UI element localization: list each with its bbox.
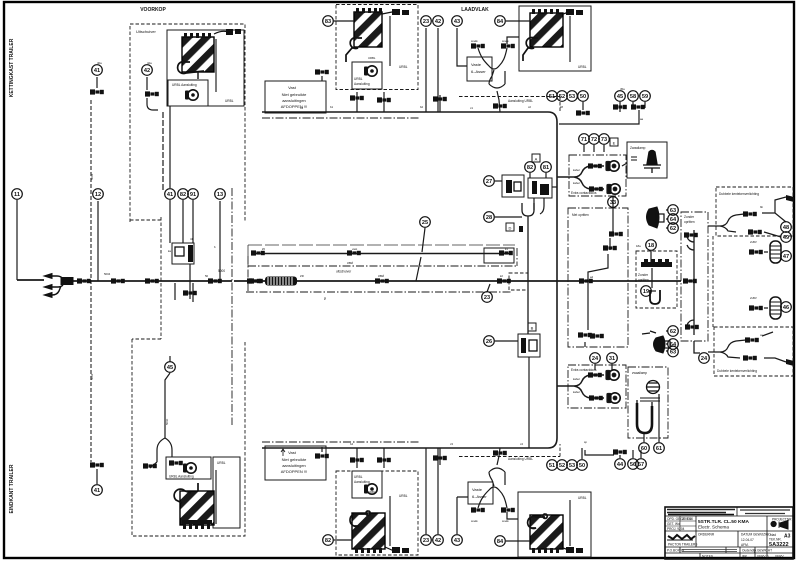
svg-text:URBL: URBL bbox=[354, 475, 363, 479]
svg-text:k8: k8 bbox=[560, 105, 563, 109]
svg-text:PACTON TRAILERS: PACTON TRAILERS bbox=[668, 543, 697, 547]
dash-dot above bottom trunk bbox=[262, 441, 420, 443]
svg-text:snelk.: snelk. bbox=[471, 519, 479, 523]
letter box A bbox=[532, 154, 540, 162]
solid box B-26 bbox=[518, 334, 540, 357]
main bus left segment bbox=[17, 280, 265, 281]
node 59 bbox=[640, 91, 651, 102]
circle 25 leader bbox=[416, 228, 425, 281]
node 43 bbox=[452, 535, 463, 546]
node 26 bbox=[484, 336, 495, 347]
bottom circles 23-42 risers bbox=[426, 448, 438, 534]
svg-text:c1: c1 bbox=[470, 106, 473, 110]
node 48 bbox=[781, 222, 792, 233]
node 44 bbox=[615, 459, 626, 470]
circle 18 stub bbox=[650, 251, 652, 262]
svg-text:URBL Aansluiting: URBL Aansluiting bbox=[169, 475, 194, 479]
svg-text:Vast: Vast bbox=[288, 85, 297, 90]
svg-text:Extra contactdoos: Extra contactdoos bbox=[571, 368, 597, 372]
svg-text:GEWICHT: GEWICHT bbox=[757, 549, 772, 553]
svg-text:Niet gebruikte: Niet gebruikte bbox=[282, 92, 307, 97]
svg-text:45a: 45a bbox=[620, 87, 625, 91]
hatched board H2 top-middle bbox=[346, 8, 409, 66]
solid box Vast niet gebruikte bottom bbox=[265, 446, 326, 480]
svg-text:5A3222: 5A3222 bbox=[769, 542, 789, 548]
svg-text:53: 53 bbox=[569, 463, 575, 469]
dashed box upper rail right end bbox=[509, 273, 528, 290]
node 52 bbox=[557, 460, 568, 471]
connector blobs on buses and wires bbox=[77, 43, 763, 512]
vaste 6-asser bottom harness bbox=[478, 448, 518, 519]
svg-text:61: 61 bbox=[656, 446, 662, 452]
svg-text:41: 41 bbox=[94, 68, 100, 74]
svg-text:52: 52 bbox=[559, 463, 565, 469]
node 41 bbox=[165, 189, 176, 200]
svg-text:18a: 18a bbox=[636, 244, 641, 248]
svg-text:vast: vast bbox=[352, 247, 357, 251]
svg-text:46: 46 bbox=[783, 305, 789, 311]
svg-text:Aansluiting URBL: Aansluiting URBL bbox=[508, 99, 533, 103]
svg-text:AFDOPPEN !!!: AFDOPPEN !!! bbox=[281, 469, 307, 474]
svg-text:45: 45 bbox=[617, 94, 623, 100]
bottom-left Y fork bbox=[157, 438, 172, 462]
svg-text:50: 50 bbox=[323, 296, 327, 300]
node 64 bbox=[668, 339, 679, 350]
node 82 bbox=[178, 189, 189, 200]
svg-text:KETTINGKAST TRAILER: KETTINGKAST TRAILER bbox=[9, 38, 15, 97]
node 18 bbox=[646, 240, 657, 251]
bottom-left circle-45 run bbox=[165, 356, 170, 438]
svg-text:Zonder: Zonder bbox=[638, 273, 649, 277]
node 73 bbox=[599, 134, 610, 145]
top circles 23-42 drops bbox=[426, 28, 438, 112]
node 61 bbox=[654, 443, 665, 454]
svg-text:23: 23 bbox=[423, 538, 429, 544]
svg-text:28: 28 bbox=[486, 215, 492, 221]
mini socket components inside boxes bbox=[175, 180, 549, 353]
solid box mini socket 81-82 bbox=[528, 178, 552, 198]
svg-text:6–Asser: 6–Asser bbox=[472, 494, 487, 499]
node 43 bbox=[452, 16, 463, 27]
svg-text:WK.: WK. bbox=[742, 555, 748, 559]
svg-text:LAADVLAK: LAADVLAK bbox=[461, 7, 489, 13]
svg-text:A: A bbox=[535, 157, 538, 162]
node 84 bbox=[495, 16, 506, 27]
bottom-left left prong connector lead bbox=[150, 462, 157, 468]
svg-text:Zwaailamp: Zwaailamp bbox=[630, 146, 646, 150]
node 52 bbox=[557, 91, 568, 102]
node 91 bbox=[188, 189, 199, 200]
bottom-right trunk connector diagonal bbox=[585, 450, 641, 458]
svg-text:AFM.: AFM. bbox=[741, 543, 749, 547]
dash-dot below top trunk bbox=[262, 117, 420, 119]
TM riser wires bottom bbox=[357, 448, 440, 468]
svg-text:42: 42 bbox=[435, 538, 441, 544]
svg-text:blad: blad bbox=[770, 533, 776, 537]
svg-text:b4: b4 bbox=[350, 442, 354, 446]
node 50 bbox=[577, 460, 588, 471]
node 63 bbox=[668, 205, 679, 216]
svg-text:b1: b1 bbox=[330, 105, 334, 109]
dashed box top-middle bbox=[336, 5, 418, 90]
svg-text:c4: c4 bbox=[520, 442, 523, 446]
busbar zonder opritten small bbox=[641, 259, 672, 267]
svg-text:Uitschuiver: Uitschuiver bbox=[136, 29, 156, 34]
zwaailamp top lead bbox=[622, 163, 627, 166]
svg-text:kabel: kabel bbox=[573, 390, 580, 394]
ribbed marker lamp bottom-right bbox=[770, 297, 781, 319]
vaste 6-asser top harness bbox=[478, 37, 519, 112]
node 64 bbox=[668, 214, 679, 225]
node 84 bbox=[495, 536, 506, 547]
node 41 bbox=[92, 65, 103, 76]
hub bottom branch fork bbox=[557, 375, 604, 398]
extra contactdoos sockets top bbox=[606, 161, 620, 194]
TM drop wires to trunk bbox=[357, 92, 440, 112]
top circle 83 lead bbox=[334, 20, 354, 22]
comp by circles 63-64-62 bottom bbox=[642, 331, 670, 353]
svg-text:ORDERNR: ORDERNR bbox=[698, 533, 715, 537]
svg-text:aansluitingen: aansluitingen bbox=[282, 463, 306, 468]
node 51 bbox=[547, 91, 558, 102]
solid box bottom-mid-right URBL bbox=[518, 492, 591, 557]
solid box URBL aansluiting top-left bbox=[168, 80, 208, 106]
dashed box Zonder opritten small bbox=[636, 251, 677, 308]
dashed box Dubbele kentekenverlichting top-right bbox=[716, 187, 793, 236]
svg-text:b2: b2 bbox=[420, 105, 424, 109]
svg-text:47: 47 bbox=[783, 254, 789, 260]
right corner verticals bbox=[516, 248, 518, 266]
svg-text:aansluitingen: aansluitingen bbox=[282, 98, 306, 103]
svg-text:Aansluiting: Aansluiting bbox=[354, 480, 370, 484]
node 63 bbox=[668, 346, 679, 357]
lamp and U-tube zwaailamp bottom bbox=[637, 381, 660, 434]
svg-text:23: 23 bbox=[484, 295, 490, 301]
svg-text:42: 42 bbox=[435, 19, 441, 25]
top circle 43 drop bbox=[457, 28, 467, 66]
marker lamp top lead bbox=[764, 252, 782, 256]
met opritten harness bbox=[585, 208, 613, 347]
svg-text:vast: vast bbox=[378, 274, 384, 278]
svg-text:c2: c2 bbox=[528, 105, 531, 109]
svg-text:43: 43 bbox=[454, 538, 460, 544]
dashed box Dubbele kentekenverlichting bottom-right bbox=[714, 327, 793, 376]
solid box URBL aansluiting top-middle bbox=[352, 62, 382, 89]
svg-text:Extra contactdoos: Extra contactdoos bbox=[571, 191, 597, 195]
svg-text:42a: 42a bbox=[147, 61, 152, 65]
svg-text:PROJECTNR: PROJECTNR bbox=[772, 518, 792, 522]
circle-42 top stub bbox=[147, 77, 158, 110]
svg-text:31: 31 bbox=[609, 356, 615, 362]
svg-text:64: 64 bbox=[670, 217, 677, 223]
vertical trunk wire bbox=[556, 122, 558, 438]
svg-text:sp: sp bbox=[584, 440, 587, 444]
solid box URBL aansluiting bottom-middle bbox=[352, 471, 382, 498]
svg-text:83: 83 bbox=[325, 19, 331, 25]
hub right branch with fork bbox=[557, 166, 604, 189]
svg-text:AFDOPPEN !!!: AFDOPPEN !!! bbox=[281, 104, 307, 109]
svg-text:41: 41 bbox=[167, 192, 173, 198]
solid box top-left cluster bbox=[167, 30, 244, 106]
svg-text:84: 84 bbox=[497, 19, 504, 25]
circle-41 mid link bbox=[169, 106, 171, 243]
svg-text:23: 23 bbox=[423, 19, 429, 25]
svg-text:P.O.BOX 99: P.O.BOX 99 bbox=[667, 549, 684, 553]
svg-text:uitschuiver: uitschuiver bbox=[336, 270, 352, 274]
svg-text:41: 41 bbox=[190, 237, 194, 241]
circles 63-64-62 comp top bbox=[666, 210, 668, 228]
node 49 bbox=[781, 232, 792, 243]
circles 58-59 merge wire bbox=[559, 102, 645, 124]
dubbele top fork bbox=[708, 213, 786, 237]
circle 19 lead bbox=[651, 290, 656, 292]
svg-text:62: 62 bbox=[670, 226, 676, 232]
svg-text:82: 82 bbox=[180, 192, 186, 198]
dashed line aansluiting URBL bottom bbox=[459, 444, 560, 457]
svg-text:A3: A3 bbox=[784, 534, 791, 540]
node 41 bbox=[92, 485, 103, 496]
dashed line aansluiting URBL top bbox=[459, 97, 560, 113]
node 45 bbox=[615, 91, 626, 102]
solid box Vast niet gebruikte top bbox=[265, 81, 326, 113]
svg-text:DATUM GEWIJZIGD: DATUM GEWIJZIGD bbox=[741, 533, 771, 537]
dash-dot box Extra contactdoos bbox=[569, 155, 626, 196]
letter box E bbox=[610, 138, 618, 146]
horizontal slide boundary upper bbox=[248, 256, 517, 292]
node 56 bbox=[628, 459, 639, 470]
svg-text:URBL: URBL bbox=[578, 65, 587, 69]
node 83 bbox=[323, 16, 334, 27]
dash-dot box Extra contactdoos bottom bbox=[568, 365, 626, 408]
node 19 bbox=[641, 286, 652, 297]
svg-text:E: E bbox=[613, 141, 616, 146]
svg-text:URBL: URBL bbox=[217, 461, 226, 465]
node 46 bbox=[781, 302, 792, 313]
extra contactdoos sockets bottom bbox=[606, 370, 620, 403]
hatched board H4 bottom-left bbox=[174, 470, 216, 529]
svg-text:B: B bbox=[531, 326, 534, 331]
node 42 bbox=[433, 16, 444, 27]
circle-12 drop bbox=[97, 201, 99, 281]
node 33 bbox=[608, 197, 619, 208]
circles 71-73 stubs bbox=[584, 145, 604, 152]
svg-text:71: 71 bbox=[581, 137, 587, 143]
circle-91 drop bbox=[192, 200, 194, 243]
upper rail bbox=[252, 253, 512, 255]
svg-text:VERV.: VERV. bbox=[775, 555, 784, 559]
svg-text:URBL: URBL bbox=[354, 77, 363, 81]
svg-text:12: 12 bbox=[95, 192, 101, 198]
top circle 84 lead bbox=[506, 20, 530, 22]
svg-text:58: 58 bbox=[630, 94, 636, 100]
dash-dot slide boundary lines bbox=[232, 118, 708, 442]
svg-text:52: 52 bbox=[559, 94, 565, 100]
socket in URBL aansluiting top-left bbox=[185, 90, 198, 100]
circle-41 top stub bbox=[96, 77, 98, 88]
comp by circles 63-64-62 top bbox=[647, 207, 665, 228]
vertical slide boundary left bbox=[231, 188, 233, 425]
svg-text:53: 53 bbox=[569, 94, 575, 100]
node 25 bbox=[420, 217, 431, 228]
svg-text:40a: 40a bbox=[97, 61, 102, 65]
letter box B bbox=[528, 323, 536, 331]
svg-text:NOTES: NOTES bbox=[702, 555, 713, 559]
dashed boundary jog left side bbox=[130, 217, 161, 339]
node 57 bbox=[636, 459, 647, 470]
U-lamp zonder opritten small bbox=[650, 290, 660, 304]
hatched board H1 top-left bbox=[178, 29, 241, 92]
circles 24-31 stubs bbox=[595, 364, 612, 370]
node 23 bbox=[482, 292, 493, 303]
svg-text:82: 82 bbox=[527, 165, 533, 171]
svg-text:Oudendijk: Oudendijk bbox=[742, 549, 757, 553]
socket in URBL aansluiting bottom-left bbox=[183, 463, 196, 473]
svg-text:63: 63 bbox=[670, 350, 676, 356]
node 50 bbox=[578, 91, 589, 102]
beacon zwaailamp top bbox=[631, 151, 661, 174]
svg-text:GET. Wd: GET. Wd bbox=[667, 522, 680, 526]
node 23 bbox=[421, 535, 432, 546]
svg-text:VOORKOP: VOORKOP bbox=[140, 7, 166, 13]
svg-text:zwaailamp: zwaailamp bbox=[632, 371, 647, 375]
solid box small connector left-mid bbox=[172, 243, 194, 264]
svg-text:URBL Aansluiting: URBL Aansluiting bbox=[172, 83, 197, 87]
circle 50 bottom stub bbox=[581, 448, 583, 459]
svg-text:URBL: URBL bbox=[368, 56, 376, 60]
dash-dot box zwaailamp bottom bbox=[628, 367, 668, 438]
svg-text:24: 24 bbox=[592, 356, 599, 362]
svg-text:URBL: URBL bbox=[399, 494, 408, 498]
node 53 bbox=[567, 460, 578, 471]
svg-text:Vaste: Vaste bbox=[471, 62, 482, 67]
left arrow feeder cluster bbox=[44, 274, 73, 298]
node 31 bbox=[607, 353, 618, 364]
svg-text:24: 24 bbox=[701, 356, 708, 362]
svg-text:42: 42 bbox=[144, 68, 150, 74]
node 28 bbox=[484, 212, 495, 223]
svg-text:50: 50 bbox=[580, 94, 586, 100]
circle 24 right stub bbox=[703, 352, 705, 364]
bus into tall box fork bbox=[688, 280, 694, 282]
solid box Vaste 6-Asser bottom bbox=[468, 482, 493, 504]
dashed box bottom-middle bbox=[336, 471, 418, 555]
node 13 bbox=[215, 189, 226, 200]
svg-text:Dubbele kentekenverlichting: Dubbele kentekenverlichting bbox=[719, 192, 759, 196]
svg-text:5004: 5004 bbox=[104, 272, 111, 276]
U-fork vertical bbox=[522, 203, 534, 334]
bottom-left circle-41 stub bbox=[96, 469, 98, 484]
svg-text:57: 57 bbox=[638, 462, 644, 468]
hatched board H3 top-right bbox=[523, 9, 583, 62]
svg-text:ZR: ZR bbox=[300, 274, 304, 278]
node 58 bbox=[628, 91, 639, 102]
circle 28 lead to U-fork line bbox=[495, 216, 522, 218]
node 42 bbox=[142, 65, 153, 76]
left circle-11 drop bbox=[16, 200, 18, 280]
svg-text:Aansluiting: Aansluiting bbox=[354, 82, 370, 86]
upper rail tray outline bbox=[248, 245, 515, 266]
node 24 bbox=[590, 353, 601, 364]
below-bus stubs left bbox=[175, 283, 193, 302]
node 72 bbox=[589, 134, 600, 145]
svg-text:26: 26 bbox=[486, 339, 492, 345]
node 42 bbox=[433, 535, 444, 546]
solid box top-mid-right URBL bbox=[519, 6, 591, 71]
svg-text:73: 73 bbox=[601, 137, 607, 143]
svg-text:5004: 5004 bbox=[90, 373, 94, 380]
svg-text:Electr. Schema: Electr. Schema bbox=[698, 525, 729, 530]
left long vertical wire bbox=[90, 100, 92, 462]
main bus right segment bbox=[297, 280, 681, 282]
svg-text:49: 49 bbox=[783, 235, 789, 241]
solid box URBL label bottom-left bbox=[213, 457, 240, 528]
svg-text:k1: k1 bbox=[505, 247, 508, 251]
svg-text:URBL: URBL bbox=[578, 496, 587, 500]
circles 63-64-62 comp bottom bbox=[666, 331, 668, 351]
svg-text:44: 44 bbox=[617, 462, 624, 468]
letter box D bbox=[506, 223, 514, 231]
svg-text:aa: aa bbox=[640, 117, 644, 121]
coil on lower rail bbox=[265, 277, 297, 286]
node 11 bbox=[12, 189, 23, 200]
svg-text:opritten: opritten bbox=[684, 220, 695, 224]
svg-text:2xBV: 2xBV bbox=[750, 296, 757, 300]
svg-text:51: 51 bbox=[549, 94, 555, 100]
connector box lower stub bbox=[189, 264, 191, 299]
hatched board H5 bottom-middle bbox=[350, 496, 409, 553]
svg-text:72: 72 bbox=[591, 137, 597, 143]
hub left branch bbox=[552, 186, 557, 188]
svg-text:18: 18 bbox=[648, 243, 654, 249]
svg-text:bb: bb bbox=[760, 205, 764, 209]
svg-text:Niet gebruikte: Niet gebruikte bbox=[282, 457, 307, 462]
svg-text:11: 11 bbox=[14, 192, 20, 198]
svg-text:ka: ka bbox=[168, 249, 171, 253]
svg-text:b3: b3 bbox=[300, 106, 304, 110]
circle 33 stub bbox=[612, 196, 614, 208]
connector pair left of TM box bbox=[321, 76, 323, 452]
svg-text:45: 45 bbox=[167, 365, 173, 371]
ribbed marker lamp top-right bbox=[770, 241, 781, 263]
circle-82 drop bbox=[182, 200, 184, 243]
svg-text:kabel: kabel bbox=[573, 181, 580, 185]
corner blob top-right bbox=[786, 195, 794, 202]
node 82 bbox=[323, 535, 334, 546]
bottom trunk wire bbox=[262, 438, 557, 448]
solid box mini socket 27 bbox=[502, 175, 524, 197]
svg-text:kabel: kabel bbox=[573, 377, 580, 381]
svg-text:Vast: Vast bbox=[288, 450, 297, 455]
svg-text:Met opritten: Met opritten bbox=[572, 213, 589, 217]
svg-text:k2: k2 bbox=[500, 274, 503, 278]
svg-text:5004: 5004 bbox=[90, 173, 94, 180]
zonder small lamp stub bbox=[651, 268, 653, 288]
svg-text:Zonder: Zonder bbox=[684, 215, 695, 219]
svg-text:c3: c3 bbox=[450, 442, 453, 446]
circle 23 leader center bbox=[487, 284, 490, 292]
svg-text:URBL: URBL bbox=[225, 99, 234, 103]
svg-text:5000: 5000 bbox=[218, 269, 225, 273]
dubbele top upper comp link bbox=[775, 197, 786, 213]
bottom circle 43 riser bbox=[457, 497, 468, 534]
svg-text:62: 62 bbox=[670, 329, 676, 335]
circle-13 drop bbox=[219, 201, 221, 281]
svg-text:33: 33 bbox=[610, 200, 616, 206]
circle 50 stub top bbox=[582, 102, 584, 110]
svg-text:kabel: kabel bbox=[573, 168, 580, 172]
svg-text:50: 50 bbox=[579, 463, 585, 469]
circles 60-61 stubs bbox=[644, 394, 659, 442]
